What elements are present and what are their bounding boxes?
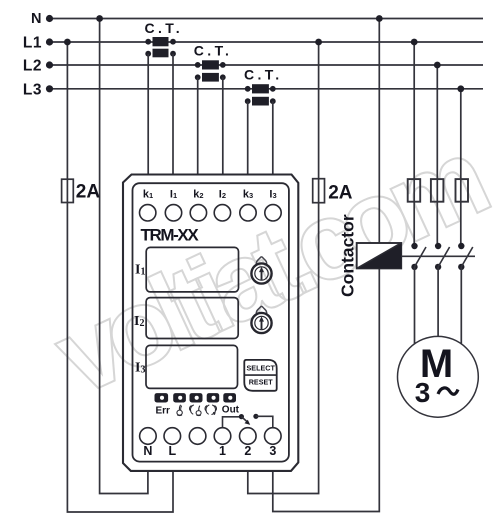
terminal k1 xyxy=(140,205,156,221)
display window I3 xyxy=(146,345,238,388)
wire L1 left drop to L terminal xyxy=(67,42,173,512)
CT1 secondary dots xyxy=(145,51,151,57)
contactor K1 coil xyxy=(357,243,402,268)
svg-text:L: L xyxy=(168,444,176,458)
CT2 secondary dots xyxy=(195,74,201,80)
terminal blank xyxy=(189,428,206,445)
svg-text:Err: Err xyxy=(156,405,171,416)
svg-text:3: 3 xyxy=(269,444,276,458)
terminal 2 xyxy=(240,428,257,445)
fuse F5 xyxy=(456,179,469,202)
contactor contact 2 xyxy=(435,243,450,270)
terminal l3 xyxy=(265,205,281,221)
wire L1 right drop through F2 to terminal 2 xyxy=(248,42,319,494)
CT3 primary bar xyxy=(252,84,269,93)
display window I2 xyxy=(146,298,238,339)
wire contactor coil to terminal 3 xyxy=(273,268,380,511)
wire contact 1 to motor xyxy=(414,267,416,344)
fuse F4 xyxy=(431,179,444,202)
svg-text:L2: L2 xyxy=(23,58,42,75)
wire CT3 k3 xyxy=(247,101,249,174)
contactor contact 1 xyxy=(411,243,426,270)
svg-text:3: 3 xyxy=(415,377,431,408)
LED D3 xyxy=(190,393,203,402)
LED D5 xyxy=(223,393,236,402)
relay output symbol xyxy=(223,414,273,428)
terminal l1 xyxy=(165,205,181,221)
svg-text:2A: 2A xyxy=(76,182,101,203)
node L3 start dot xyxy=(46,85,53,92)
wire CT2 l2 xyxy=(222,77,224,174)
svg-text:L1: L1 xyxy=(23,35,42,52)
junction dot L2 motor xyxy=(434,62,441,69)
LED D1 xyxy=(155,393,169,402)
bus L3 wire xyxy=(50,88,484,90)
wire contact 3 to motor xyxy=(460,267,462,344)
svg-text:TRM-XX: TRM-XX xyxy=(141,226,200,245)
svg-text:N: N xyxy=(143,444,152,458)
icon phone-hand xyxy=(190,405,202,416)
CT2 primary bar xyxy=(202,60,219,69)
icon hand xyxy=(177,405,182,416)
CT3 secondary bar xyxy=(252,97,269,106)
svg-text:C.T.: C.T. xyxy=(194,43,233,59)
CT2 secondary bar xyxy=(202,73,219,82)
svg-text:k3: k3 xyxy=(243,189,253,201)
bus N wire xyxy=(50,18,484,20)
junction dot L3 motor xyxy=(457,85,464,92)
fuse F2 2A (right) xyxy=(313,179,325,203)
wire contact 2 to motor xyxy=(437,267,439,337)
CT3 secondary dots xyxy=(245,98,251,104)
wire CT2 k2 xyxy=(197,77,199,174)
display window I1 xyxy=(146,247,238,292)
CT2 primary dots xyxy=(195,62,201,68)
junction dot L1 left xyxy=(64,39,71,46)
junction dot L1 motor xyxy=(411,39,418,46)
CT3 primary dots xyxy=(245,86,251,92)
device outer case xyxy=(123,175,298,471)
motor M1 xyxy=(398,336,479,417)
wire N right drop to contactor coil xyxy=(378,19,380,244)
terminal L xyxy=(164,428,181,445)
junction dot N left xyxy=(96,15,103,22)
svg-text:k2: k2 xyxy=(193,189,203,201)
bus L1 wire xyxy=(50,41,484,43)
wire CT1 k1 xyxy=(147,54,149,175)
terminal l2 xyxy=(214,205,230,221)
contactor contact 3 xyxy=(458,243,473,270)
svg-text:SELECT: SELECT xyxy=(247,364,276,373)
junction dot N right xyxy=(376,15,383,22)
CT1 secondary bar xyxy=(153,49,169,58)
terminal N xyxy=(140,428,157,445)
wire CT1 l1 xyxy=(172,54,174,175)
device inner face xyxy=(133,183,289,461)
wire N left drop to N terminal xyxy=(100,19,148,494)
svg-text:Out: Out xyxy=(222,405,240,416)
wire L1 motor phase drop xyxy=(413,42,415,246)
current transformer CT1 xyxy=(145,20,184,58)
icon phone-ring xyxy=(205,405,216,415)
terminal k2 xyxy=(190,205,206,221)
bus L2 wire xyxy=(50,64,484,66)
terminal k3 xyxy=(240,205,256,221)
svg-text:I1: I1 xyxy=(170,189,177,201)
svg-text:RESET: RESET xyxy=(249,378,274,387)
svg-text:1: 1 xyxy=(219,444,226,458)
svg-text:C.T.: C.T. xyxy=(244,67,283,83)
svg-text:2: 2 xyxy=(244,444,251,458)
svg-text:N: N xyxy=(31,11,41,27)
node N start dot xyxy=(46,15,53,22)
current transformer CT2 xyxy=(194,43,233,82)
svg-text:I2: I2 xyxy=(219,189,226,201)
button SELECT xyxy=(244,360,276,391)
junction dot L1 right xyxy=(315,39,322,46)
knob RV1 xyxy=(251,257,271,284)
CT1 primary bar xyxy=(153,37,169,46)
watermark voltiat.com xyxy=(37,117,497,419)
wire L2 motor phase drop xyxy=(436,65,438,246)
wire CT3 l3 xyxy=(272,101,274,174)
node L1 start dot xyxy=(46,38,53,45)
LED D2 xyxy=(173,393,186,402)
node L2 start dot xyxy=(46,61,53,68)
fuse F1 2A (left) xyxy=(62,179,74,202)
relay TRM-XX device xyxy=(123,175,298,471)
svg-text:L3: L3 xyxy=(23,81,42,98)
knob RV2 xyxy=(251,306,271,333)
contactor link line xyxy=(401,255,475,257)
terminal 1 xyxy=(214,428,231,445)
svg-text:2A: 2A xyxy=(328,182,353,203)
wire L3 motor phase drop xyxy=(460,89,462,246)
svg-text:C.T.: C.T. xyxy=(145,20,184,36)
svg-text:Contactor: Contactor xyxy=(338,214,358,297)
svg-text:I3: I3 xyxy=(269,189,276,201)
CT1 primary dots xyxy=(145,39,151,45)
svg-text:k1: k1 xyxy=(143,189,153,201)
fuse F3 xyxy=(408,179,421,202)
terminal 3 xyxy=(265,428,282,445)
current transformer CT3 xyxy=(244,67,283,106)
LED D4 xyxy=(207,393,220,402)
